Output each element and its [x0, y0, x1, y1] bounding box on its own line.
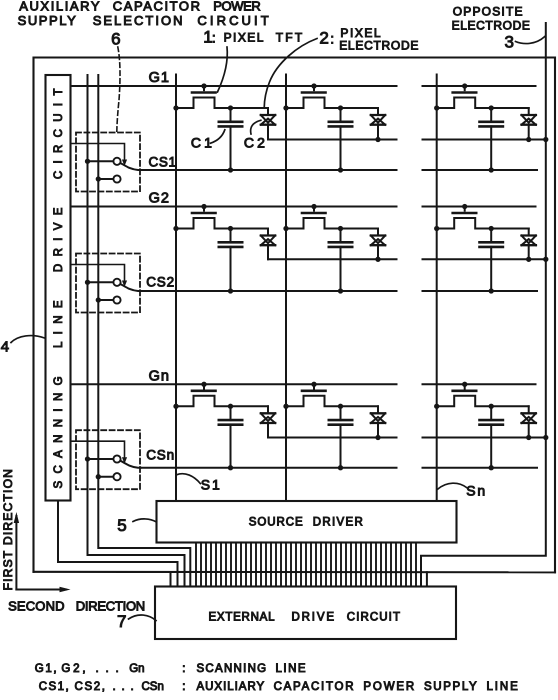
leader from 4 to scanning line drive circuit [11, 336, 45, 343]
switch SW3 control arrowhead [122, 457, 127, 464]
svg-text:AUXILIARY: AUXILIARY [197, 681, 265, 693]
svg-text:G1: G1 [149, 70, 170, 86]
storage capacitor row1 col3 (C1) [480, 105, 503, 170]
auxiliary capacitor power supply line CS1 [141, 169, 397, 171]
svg-text:CIRCUIT: CIRCUIT [347, 611, 400, 623]
node: C2 to common row3 col3 [526, 435, 531, 440]
node: C2 to common row1 col2 [375, 137, 380, 142]
svg-text::: : [182, 681, 185, 693]
svg-text::: : [330, 31, 334, 47]
pixel TFT row3 col2 [283, 382, 378, 409]
source driver U5 [157, 501, 457, 543]
frame bottom tap to external drive circuit (left) [170, 572, 172, 587]
svg-text:7: 7 [117, 612, 126, 631]
pixel TFT row1 col3 [434, 83, 529, 110]
switch SW2 wiper arm [121, 284, 141, 291]
auxiliary supply rail A [88, 75, 185, 587]
frame bottom tap to external drive circuit (right) [426, 572, 428, 586]
auxiliary capacitor power supply line CS2 [141, 290, 397, 292]
label: OPPOSITE ELECTRODE [452, 5, 530, 33]
svg-text:LINE: LINE [487, 681, 519, 693]
storage capacitor row1 col1 (C1) [219, 105, 242, 170]
common electrode line row 3 [268, 437, 397, 439]
switch SW2 control arrowhead [122, 281, 127, 288]
leader from 3 to opposite electrode line [516, 37, 545, 44]
pixel electrode / liquid crystal cell row1 col3 (C2) [522, 108, 536, 140]
svg-text:CSn: CSn [142, 681, 164, 693]
svg-text:OPPOSITE: OPPOSITE [453, 5, 523, 19]
node: common row 2 to opposite electrode [543, 257, 548, 262]
leader from 2 to pixel electrode C2 [264, 39, 317, 109]
svg-text::: : [212, 29, 216, 45]
leader from 7 to external drive circuit [129, 615, 157, 621]
svg-text:EXTERNAL: EXTERNAL [209, 611, 276, 623]
svg-text:ELECTRODE: ELECTRODE [452, 19, 530, 33]
label: 1 : PIXEL TFT [203, 27, 303, 46]
svg-text:.: . [116, 663, 119, 675]
svg-text:.: . [131, 681, 134, 693]
pixel TFT row3 col3 [434, 382, 529, 409]
leader Sn [438, 483, 467, 489]
svg-text:.: . [122, 681, 125, 693]
svg-text:SECOND: SECOND [8, 599, 64, 614]
pixel TFT row1 col2 [283, 83, 378, 110]
node: C1 to CSn row3 col1 [228, 465, 233, 470]
auxiliary supply rail B [98, 75, 190, 587]
label SECOND DIRECTION [8, 599, 145, 614]
svg-text:CAPACITOR: CAPACITOR [113, 0, 200, 13]
capacitor supply selection switch SW1 (dashed box) [76, 133, 140, 192]
pixel electrode / liquid crystal cell row1 col1 (C2) [261, 108, 275, 140]
pixel TFT row1 col1 [173, 83, 268, 110]
pixel electrode / liquid crystal cell row3 col2 (C2) [371, 406, 385, 437]
first direction arrow [14, 512, 19, 590]
switch SW3 control wire from scan driver [71, 441, 125, 457]
storage capacitor row2 col3 (C1) [480, 226, 503, 291]
label: 2 : PIXEL ELECTRODE [319, 26, 418, 52]
svg-text:DRIVER: DRIVER [313, 516, 363, 528]
svg-text:.: . [113, 681, 116, 693]
storage capacitor row1 col2 (C1) [329, 105, 352, 170]
node: C1 to CS2 row2 col3 [489, 288, 494, 293]
legend: scanning line [35, 663, 306, 675]
svg-text:POWER: POWER [363, 681, 414, 693]
scanning line G2 [71, 206, 397, 208]
pixel TFT row2 col1 [173, 204, 268, 231]
leader from 5 to source driver [133, 519, 157, 522]
svg-text:4: 4 [1, 339, 9, 356]
svg-text:SELECTION: SELECTION [93, 13, 183, 28]
node: C1 to CS2 row2 col2 [338, 288, 343, 293]
switch SW1 control arrowhead [122, 160, 127, 167]
svg-text:2: 2 [319, 29, 328, 48]
leader from 1 to first pixel TFT [218, 47, 228, 92]
scanning line drive circuit U4 [46, 75, 71, 501]
svg-text:Gn: Gn [129, 663, 144, 675]
svg-text:G2: G2 [149, 191, 170, 207]
switch SW3 contact A (rail A) [85, 455, 121, 462]
svg-text:SCANNING: SCANNING [197, 663, 267, 675]
svg-text:CS2: CS2 [146, 274, 174, 289]
common electrode line row 2 [268, 258, 397, 260]
pixel TFT row2 col3 [434, 204, 529, 231]
node: C1 to CSn row3 col3 [489, 465, 494, 470]
auxiliary capacitor power supply line CSn [141, 467, 397, 469]
source line S1 [175, 75, 177, 502]
switch SW2 control wire from scan driver [71, 265, 125, 281]
switch SW3 contact B (rail B) [96, 473, 121, 480]
capacitor supply selection switch SW3 (dashed box) [76, 430, 140, 489]
scanning line G1 [71, 85, 397, 87]
svg-text:6: 6 [111, 29, 120, 48]
switch SW2 contact B (rail B) [96, 296, 121, 303]
label: AUXILIARY CAPACITOR POWER SUPPLY SELECTION CIRCUIT [18, 0, 269, 28]
pixel electrode / liquid crystal cell row2 col2 (C2) [371, 229, 385, 260]
switch SW1 control wire from scan driver [71, 144, 125, 160]
dashed leader from 6 to selection switch box [117, 47, 120, 132]
svg-text:DIRECTION: DIRECTION [76, 599, 145, 614]
node: C1 to CS1 row1 col2 [338, 167, 343, 172]
node: C2 to common row2 col3 [526, 257, 531, 262]
svg-text:.: . [96, 663, 99, 675]
leader S1 [177, 474, 201, 484]
svg-text:CAPACITOR: CAPACITOR [274, 681, 354, 693]
svg-text:LINE: LINE [276, 663, 306, 675]
svg-text::: : [182, 663, 185, 675]
scanning line Gn [71, 383, 397, 385]
svg-text:Gn: Gn [149, 368, 170, 384]
common electrode line row 1 [268, 139, 397, 141]
storage capacitor row3 col3 (C1) [480, 404, 503, 468]
svg-text:FIRST DIRECTION: FIRST DIRECTION [1, 469, 15, 591]
svg-text:G2,: G2, [61, 663, 85, 675]
node: common row 3 to opposite electrode [543, 435, 548, 440]
switch SW1 contact A (rail A) [85, 158, 121, 165]
svg-text:3: 3 [505, 33, 514, 52]
external drive circuit U7 [155, 587, 456, 640]
pixel TFT row2 col2 [283, 204, 378, 231]
capacitor supply selection switch SW2 (dashed box) [76, 254, 140, 313]
wire from scan driver to external drive circuit [58, 501, 178, 587]
svg-text:AUXILIARY: AUXILIARY [19, 0, 100, 13]
node: C2 to common row2 col2 [375, 257, 380, 262]
storage capacitor row3 col2 (C1) [329, 404, 352, 468]
switch SW1 contact B (rail B) [96, 175, 121, 182]
pixel electrode / liquid crystal cell row2 col1 (C2) [261, 229, 275, 260]
svg-text:DRIVE: DRIVE [292, 611, 335, 623]
node: C1 to CSn row3 col2 [338, 465, 343, 470]
svg-text:.: . [106, 663, 109, 675]
bus wires source driver to external drive circuit [196, 543, 416, 587]
svg-text:5: 5 [117, 516, 126, 535]
node: C2 to common row3 col2 [375, 435, 380, 440]
opposite electrode line (net 3) [421, 23, 546, 587]
pixel electrode / liquid crystal cell row3 col1 (C2) [261, 406, 275, 437]
switch SW2 contact A (rail A) [85, 279, 121, 286]
svg-text:CSn: CSn [146, 448, 174, 463]
node: common row 1 to opposite electrode [543, 137, 548, 142]
svg-text:ELECTRODE: ELECTRODE [339, 38, 418, 52]
storage capacitor row2 col1 (C1) [219, 226, 242, 291]
node: C1 to CS1 row1 col1 [228, 167, 233, 172]
pixel electrode / liquid crystal cell row2 col3 (C2) [522, 229, 536, 260]
pixel electrode / liquid crystal cell row1 col2 (C2) [371, 108, 385, 140]
pixel TFT row3 col1 [173, 382, 268, 409]
panel frame bottom edge [34, 571, 556, 574]
node: C1 to CS2 row2 col1 [228, 288, 233, 293]
storage capacitor row2 col2 (C1) [329, 226, 352, 291]
source line S2 [285, 75, 287, 502]
leader C1 [211, 130, 225, 143]
leader C2 [251, 120, 261, 134]
node: C2 to common row1 col3 [526, 137, 531, 142]
svg-text:POWER: POWER [213, 0, 261, 13]
svg-text:CS1: CS1 [149, 154, 177, 169]
second direction arrow [16, 587, 70, 592]
storage capacitor row3 col1 (C1) [219, 404, 242, 468]
source line S3 [436, 75, 438, 502]
svg-text:SOURCE: SOURCE [249, 516, 303, 528]
svg-text:PIXEL: PIXEL [224, 30, 264, 44]
svg-text:G1,: G1, [35, 663, 57, 675]
switch SW1 wiper arm [121, 163, 141, 170]
legend: auxiliary capacitor power supply line [39, 681, 518, 693]
panel frame [34, 58, 556, 573]
switch SW3 wiper arm [121, 461, 141, 468]
svg-text:TFT: TFT [276, 30, 303, 44]
pixel electrode / liquid crystal cell row3 col3 (C2) [522, 406, 536, 437]
node: C1 to CS1 row1 col3 [489, 167, 494, 172]
